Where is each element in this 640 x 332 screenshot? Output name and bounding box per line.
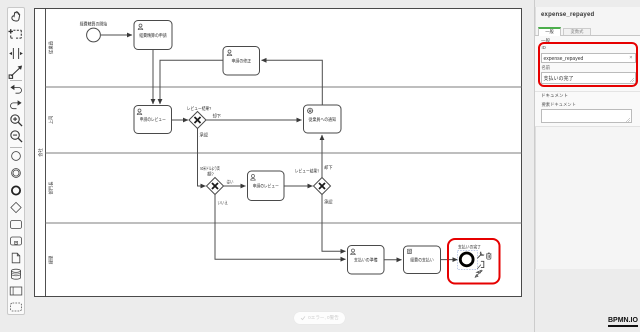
svg-text:経理: 経理 xyxy=(48,255,55,264)
svg-text:レビュー結果?: レビュー結果? xyxy=(187,105,212,112)
svg-text:承認: 承認 xyxy=(324,198,333,205)
svg-text:申請のレビュー: 申請のレビュー xyxy=(253,183,279,190)
svg-text:支払いの完了: 支払いの完了 xyxy=(458,244,481,251)
svg-text:上司: 上司 xyxy=(48,116,54,125)
svg-text:レビュー結果?: レビュー結果? xyxy=(295,167,320,174)
svg-text:承認: 承認 xyxy=(200,132,209,139)
svg-text:経費精算の申請: 経費精算の申請 xyxy=(139,32,167,39)
svg-text:経費精算の開始: 経費精算の開始 xyxy=(80,21,108,28)
svg-text:額?: 額? xyxy=(207,171,214,178)
svg-text:却下: 却下 xyxy=(324,164,333,171)
svg-text:申請のレビュー: 申請のレビュー xyxy=(140,116,166,123)
svg-text:申請の修正: 申請の修正 xyxy=(232,57,252,64)
svg-text:部門長: 部門長 xyxy=(48,181,55,194)
svg-text:却下: 却下 xyxy=(213,112,222,119)
svg-text:会社: 会社 xyxy=(37,148,44,157)
svg-text:支払いの準備: 支払いの準備 xyxy=(354,257,378,264)
svg-text:経費の支払い: 経費の支払い xyxy=(410,257,434,264)
svg-text:従業員: 従業員 xyxy=(48,41,55,54)
svg-text:従業員への通知: 従業員への通知 xyxy=(309,116,337,123)
